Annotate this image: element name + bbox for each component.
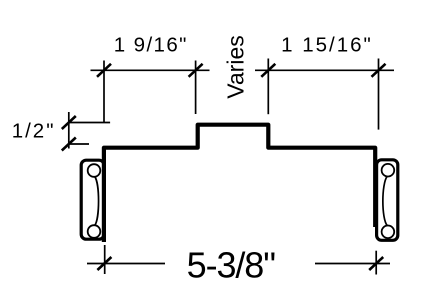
extension line tab right xyxy=(267,59,269,115)
tick right of 1 9/16 xyxy=(189,64,203,77)
left seal bottom roller xyxy=(88,225,101,238)
left seal leaf spring xyxy=(95,177,99,226)
tick right of 5-3/8 xyxy=(369,257,383,270)
tick left of 1 9/16 xyxy=(97,64,111,77)
svg-text:1 15/16": 1 15/16" xyxy=(281,34,373,57)
dimension line 1 9/16 xyxy=(91,69,210,71)
extension line right edge xyxy=(378,59,380,130)
extension line tab left xyxy=(195,61,197,115)
dimension line 1 15/16 xyxy=(255,69,394,71)
extension line bottom left xyxy=(104,245,106,274)
reference line base top level xyxy=(69,143,89,145)
tick right of 1 15/16 xyxy=(372,64,386,77)
svg-text:Varies: Varies xyxy=(223,35,249,99)
tick top of 1/2 xyxy=(62,116,76,129)
extension line left edge xyxy=(103,61,105,123)
right seal bottom roller xyxy=(382,226,395,239)
sill profile outline xyxy=(104,125,375,242)
svg-text:5-3/8": 5-3/8" xyxy=(187,245,276,286)
dimension line 5-3/8 left segment xyxy=(87,263,165,265)
tick bottom of 1/2 xyxy=(62,138,76,151)
dimension line 1/2 (vertical) xyxy=(68,112,70,149)
svg-text:1/2": 1/2" xyxy=(12,120,56,143)
tick left of 1 15/16 xyxy=(261,64,275,77)
right seal top roller xyxy=(382,164,395,177)
right jamb seal housing xyxy=(377,160,398,241)
dimension line 5-3/8 right segment xyxy=(315,263,390,265)
left seal top roller xyxy=(88,164,101,177)
right seal leaf spring xyxy=(383,176,387,225)
reference line tab top level xyxy=(69,122,110,124)
svg-text:1 9/16": 1 9/16" xyxy=(114,34,188,57)
left jamb seal housing xyxy=(81,160,104,239)
tick left of 5-3/8 xyxy=(97,257,111,270)
extension line bottom right xyxy=(375,251,377,275)
